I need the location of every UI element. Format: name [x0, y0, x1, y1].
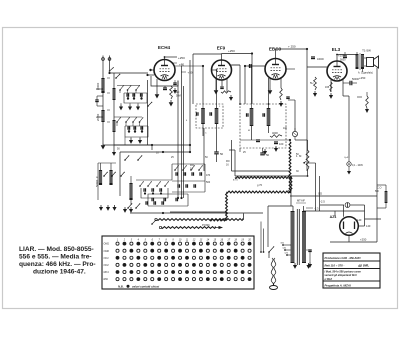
wire MF1 top leads: [202, 104, 204, 108]
tube ECH4: [154, 60, 175, 81]
oscillator coil L7: [129, 183, 132, 200]
osc trimmer caps2: [145, 201, 147, 205]
capacitor 01 100V: [347, 162, 351, 166]
RF coil L4: [113, 120, 116, 132]
wire osc col C: [189, 60, 191, 145]
wire osc coils top: [100, 163, 102, 170]
svg-text:500: 500: [206, 181, 211, 184]
wire sw1 drops: [119, 90, 121, 93]
antenna coil L1 30000: [101, 78, 104, 93]
padder trimmer C9: [159, 188, 161, 192]
wire EBC3 grid: [248, 65, 265, 67]
chassis bus y212: [170, 212, 263, 214]
wire T2 prim top: [292, 206, 294, 212]
shielded cable down: [226, 192, 228, 220]
svg-text:RO: RO: [190, 163, 194, 167]
wire MF1 bottom leads: [202, 124, 204, 136]
ground osc1: [100, 205, 102, 207]
trimmer C3: [140, 93, 142, 97]
svg-text:N.B.: N.B.: [118, 284, 124, 288]
svg-text:OM2: OM2: [104, 250, 110, 253]
wire group1 downs: [120, 103, 122, 105]
wire choke: [385, 185, 387, 191]
wire MF2 col down: [244, 66, 246, 104]
svg-text:valori contatti chiusi: valori contatti chiusi: [132, 284, 159, 288]
wire L2 down: [102, 122, 104, 143]
resistor EL3 grid: [314, 77, 317, 90]
ground EF9 r: [230, 95, 232, 97]
svg-text:A. C(garofalo): A. C(garofalo): [358, 72, 373, 75]
fuse lamp: [345, 203, 350, 208]
capacitor EBC3 grid: [249, 64, 251, 68]
volume potentiometer 1M: [306, 150, 309, 170]
resistor EF9 k: [221, 91, 231, 93]
svg-text:100: 100: [279, 142, 284, 146]
wire top right over: [355, 55, 357, 57]
wire speaker down: [376, 68, 378, 242]
mains switch: [268, 251, 270, 253]
svg-text:-2.3: -2.3: [314, 207, 319, 211]
antenna terminal A2: [108, 58, 111, 61]
svg-text:EF9: EF9: [217, 46, 226, 51]
speaker: [367, 58, 374, 67]
heater bus: [235, 177, 291, 179]
wire rect cathode: [348, 235, 350, 242]
ground S2b: [129, 105, 131, 107]
wire EBC3 col: [244, 66, 246, 104]
wire right col x345: [348, 150, 350, 158]
wire osc top: [120, 151, 190, 153]
resistor EL3 k: [330, 82, 332, 92]
padder block switches: [174, 169, 176, 171]
box group1: [124, 93, 147, 103]
trimmer C1: [126, 93, 128, 97]
padder box 2: [148, 194, 188, 206]
ground osc3: [114, 205, 116, 207]
switch S7 row: [139, 185, 141, 187]
bus y205: [320, 204, 344, 206]
tube EL3: [327, 61, 347, 81]
switch S4: [147, 105, 149, 107]
antenna coil L2: [101, 110, 104, 122]
wire sw group2 top: [114, 116, 142, 118]
capacitor 50 pot: [260, 152, 265, 154]
power transformer T2 secondary: [302, 211, 306, 263]
resistor 4000 det: [270, 135, 282, 138]
wire EL3 grid: [307, 66, 327, 68]
band switch S2: [119, 89, 121, 91]
wire osc box top: [136, 179, 172, 181]
wire osc col C2: [189, 145, 191, 152]
wire EL3 pins: [330, 80, 332, 92]
oscillator coil L5: [99, 170, 102, 185]
wire left bank stub1: [107, 77, 110, 79]
heater bus right: [290, 178, 292, 191]
svg-text:5U: 5U: [310, 81, 313, 85]
svg-text:50: 50: [220, 152, 224, 156]
wire osc mid: [97, 163, 99, 200]
info table: [323, 253, 380, 288]
svg-text:20000: 20000: [96, 113, 100, 121]
capacitor 50 MF1: [214, 151, 219, 153]
resistor EBC3 k: [280, 88, 283, 100]
capacitor 100 det: [274, 141, 278, 143]
output transformer T1: [356, 54, 359, 69]
wire group2 verticals: [128, 126, 130, 132]
MF1 secondary winding: [215, 108, 219, 124]
svg-text:duzione 1946-47.: duzione 1946-47.: [33, 269, 86, 276]
svg-text:POND.: POND.: [202, 223, 210, 227]
shielded grid cable vertical: [289, 142, 291, 192]
svg-text:OC1: OC1: [104, 257, 110, 260]
ground osc2: [107, 205, 109, 207]
wire padder top: [172, 163, 205, 165]
wire sw2 drops: [116, 122, 118, 126]
wire RF column: [113, 73, 115, 150]
padder trimmer C7: [143, 188, 145, 192]
IF transformer MF1 box: [196, 104, 223, 128]
wire screen bus: [239, 65, 241, 104]
svg-text:50000: 50000: [95, 179, 99, 187]
wire group1 verticals: [127, 93, 129, 99]
MF1 trimmer 1: [196, 112, 198, 116]
power transformer core: [296, 209, 298, 265]
diode detector: [292, 131, 297, 136]
wire T2 prim left: [267, 206, 269, 247]
ground EBC3 r: [280, 101, 282, 103]
svg-text:-2.5: -2.5: [320, 200, 325, 204]
svg-text:a 70: a 70: [233, 179, 238, 182]
capacitor det1: [256, 139, 260, 141]
svg-text:4000: 4000: [272, 131, 278, 135]
wire det col: [234, 150, 236, 176]
svg-text:e WL8: e WL8: [325, 278, 333, 281]
wire L7: [130, 176, 132, 183]
svg-text:10000: 10000: [317, 58, 324, 61]
wire grid EL3 v: [306, 95, 308, 171]
capacitor T2: [308, 249, 312, 251]
svg-text:varianti gli altoparlanti RL: varianti gli altoparlanti RL6: [325, 274, 358, 277]
wire to grid ECH4: [148, 74, 155, 76]
capacitor EF9: [220, 86, 224, 88]
wire pot top: [307, 140, 309, 150]
MF1 trimmer 2: [209, 112, 211, 116]
wire y171 h: [232, 170, 291, 172]
ground EF9 k: [215, 88, 217, 90]
ground ECH4 k: [156, 92, 158, 94]
ground det: [264, 149, 266, 151]
switch S8: [127, 207, 129, 209]
wire rect box: [335, 210, 365, 212]
svg-text:OM1: OM1: [104, 243, 110, 246]
wire mtnf arrow: [306, 207, 313, 209]
svg-text:140: 140: [357, 218, 362, 222]
svg-text:MT-NF: MT-NF: [297, 199, 305, 203]
svg-text:30000: 30000: [96, 82, 100, 90]
trimmer C2: [132, 93, 134, 97]
ground osc4: [124, 207, 126, 209]
resistor ECH4 bias: [170, 86, 173, 99]
capacitor EL3 grid: [311, 56, 315, 58]
svg-text:556 e 555. — Media fre-: 556 e 555. — Media fre-: [19, 254, 92, 261]
ground osc5: [130, 207, 132, 209]
MF1 primary winding: [201, 108, 205, 124]
wire EBC3 anode: [275, 49, 277, 59]
MF2 trimmer 1: [246, 113, 248, 117]
wire EBC3 +250: [276, 48, 308, 50]
svg-text:MC1: MC1: [104, 271, 110, 274]
box osc trimmers: [141, 188, 168, 198]
wire osc bottom2: [170, 211, 226, 213]
dial col: [260, 222, 262, 253]
capacitor 50000: [349, 81, 351, 86]
svg-text:Produzione LIAR - MILANO: Produzione LIAR - MILANO: [325, 256, 362, 260]
ground ECH4 bias: [170, 100, 172, 102]
svg-text:Reti 110 ÷ 570 -: Reti 110 ÷ 570 -: [325, 263, 345, 267]
trimmer C5: [133, 126, 135, 130]
wire EBC3 pins: [269, 78, 271, 88]
box group2: [125, 126, 148, 137]
svg-text:g 70: g 70: [257, 183, 263, 187]
RF coil L3: [113, 88, 116, 100]
wire osc col B: [181, 66, 183, 198]
wire T2 taps: [283, 244, 291, 246]
padder caps row3: [151, 198, 153, 202]
bus y196: [290, 195, 377, 197]
capacitor 5000 EL3: [343, 55, 347, 57]
ground antenna: [102, 143, 104, 145]
wire sw group1 top: [117, 85, 140, 87]
wire padder mid: [172, 180, 205, 182]
wire +80 stub: [172, 62, 177, 64]
wire group2 downs: [130, 137, 132, 138]
filter choke CO: [385, 191, 388, 203]
wire det to pot: [289, 140, 291, 142]
svg-text:GD: GD: [318, 192, 322, 196]
ground left mid: [113, 150, 115, 152]
junction dots extra: [202, 65, 204, 67]
padder caps row2: [177, 184, 179, 188]
wire 140 line: [365, 218, 382, 220]
svg-text:Progettista A. NIZAI: Progettista A. NIZAI: [325, 284, 351, 288]
wire mid h y95: [151, 94, 178, 96]
wire x252 down: [251, 104, 253, 140]
wire x330 v: [334, 211, 336, 217]
capacitor antenna: [95, 99, 99, 101]
svg-text:I Mod. 504 e 556 portano come: I Mod. 504 e 556 portano come: [325, 270, 362, 273]
svg-text:+250: +250: [359, 76, 366, 80]
trimmer C6: [140, 126, 142, 130]
wire col x252: [251, 54, 253, 105]
shielded grid cable horizontal: [227, 191, 291, 193]
svg-text:EL3: EL3: [332, 47, 341, 52]
svg-text:165: 165: [325, 86, 330, 89]
ground EL3 grid: [314, 91, 316, 93]
svg-text:T1-5W: T1-5W: [362, 49, 371, 53]
capacitor ECH4 pin: [163, 87, 167, 89]
svg-text:M: M: [248, 130, 250, 132]
svg-text:140: 140: [366, 224, 371, 228]
tube EBC3: [265, 59, 286, 80]
wire bottom group: [114, 144, 152, 146]
wire EL3 anode: [336, 55, 338, 62]
svg-text:quenza: 466 kHz. — Pro-: quenza: 466 kHz. — Pro-: [19, 261, 96, 268]
wire padder bot: [172, 191, 205, 193]
svg-text:+250: +250: [360, 238, 367, 242]
dial cord arrow: [216, 227, 219, 229]
ground S2a: [120, 105, 122, 107]
oscillator coil L6: [109, 170, 112, 185]
ground fb: [365, 109, 369, 113]
svg-text:100: 100: [283, 127, 288, 130]
wire MF2 leads down: [251, 126, 253, 140]
wire antenna down: [102, 60, 104, 78]
ground S3: [130, 138, 132, 140]
wire antenna bus: [110, 72, 149, 74]
trimmer C4: [127, 126, 129, 130]
wire group col right: [147, 80, 149, 145]
svg-text:CµF: CµF: [344, 157, 349, 159]
ground EBC3: [269, 88, 271, 90]
wire osc left v: [119, 152, 121, 196]
wire EF9 pins: [215, 79, 217, 88]
switch S1a: [109, 70, 111, 72]
wire osc bottom: [130, 212, 170, 214]
svg-text:+250: +250: [228, 49, 235, 53]
ground T2 sec: [308, 263, 310, 265]
MF2 secondary winding: [267, 108, 271, 126]
svg-text:ECH4: ECH4: [158, 45, 171, 50]
wire y198 bus: [152, 197, 178, 199]
shielded cable bottom: [210, 219, 227, 221]
wire ECH4 top anode: [164, 57, 166, 60]
svg-text:OC2: OC2: [104, 264, 110, 267]
switch S5: [124, 159, 126, 161]
MF2 primary winding: [250, 108, 254, 126]
bus +250 bottom: [330, 241, 377, 243]
svg-text:40 VAL: 40 VAL: [357, 263, 369, 268]
wire pot col down: [315, 163, 317, 211]
wire T2 sec top: [303, 206, 305, 212]
mains cord twisted: [271, 258, 273, 285]
svg-text:50: 50: [266, 153, 270, 157]
wire MF1 col down long: [203, 128, 205, 171]
wire ECH4 pin3: [156, 79, 158, 92]
svg-text:5000: 5000: [340, 59, 346, 62]
wire diode feed: [294, 100, 296, 131]
MF2 trimmer 2: [262, 113, 264, 117]
ground EL3 k: [330, 93, 332, 95]
wire EBC3 diode: [286, 68, 295, 70]
wire osc col A: [177, 81, 179, 199]
antenna terminal A1: [102, 58, 105, 61]
rectifier AZ1: [340, 217, 359, 236]
svg-text:C.O: C.O: [377, 187, 382, 190]
wire anode col ECH4: [202, 95, 204, 99]
ground T2 core: [294, 263, 296, 265]
switch position table: [102, 236, 254, 289]
svg-text:0,1 - 100V: 0,1 - 100V: [352, 164, 363, 167]
wire MF1 sec down: [216, 154, 218, 162]
wire ECH4 grid left: [150, 69, 154, 71]
switch S6 row: [103, 175, 105, 177]
wire det bus: [240, 139, 290, 141]
wire EF9 +250: [193, 53, 222, 55]
wire EF9 anode up: [221, 54, 223, 61]
wire rect anode wires: [320, 204, 345, 206]
padder trimmer C8: [151, 188, 153, 192]
svg-text:RID: RID: [104, 278, 109, 281]
svg-text:470: 470: [206, 174, 211, 177]
IF transformer MF2 box: [240, 104, 286, 148]
dial cord lower: [162, 227, 217, 229]
svg-text:+ 250: + 250: [288, 45, 296, 49]
dial cord upper: [157, 219, 244, 221]
wire pot bottom: [307, 170, 309, 176]
switch S1b: [115, 77, 117, 79]
svg-text:LIAR. — Mod. 850-8055-: LIAR. — Mod. 850-8055-: [19, 246, 94, 253]
wire EL3 col left: [306, 49, 308, 95]
padder caps: [175, 172, 177, 176]
power transformer T2 primary: [291, 211, 295, 263]
tube EF9: [212, 60, 232, 80]
wire ECH4 pins frame: [151, 76, 178, 86]
wire col x262: [262, 148, 264, 153]
ground S2c: [137, 105, 139, 107]
wire x240 down: [239, 148, 241, 152]
junction dots bus: [177, 197, 179, 199]
band switch S3: [116, 121, 118, 123]
mains plug: [270, 286, 278, 290]
wire fb resistor: [366, 96, 369, 108]
wire EF9 screen: [229, 64, 240, 66]
svg-text:+250: +250: [178, 56, 185, 60]
wire L1 down: [102, 93, 104, 110]
wire MF2 top: [251, 104, 253, 108]
wire y171 up: [231, 140, 233, 171]
node junction g1: [151, 144, 153, 146]
svg-text:AZ1: AZ1: [330, 215, 337, 219]
